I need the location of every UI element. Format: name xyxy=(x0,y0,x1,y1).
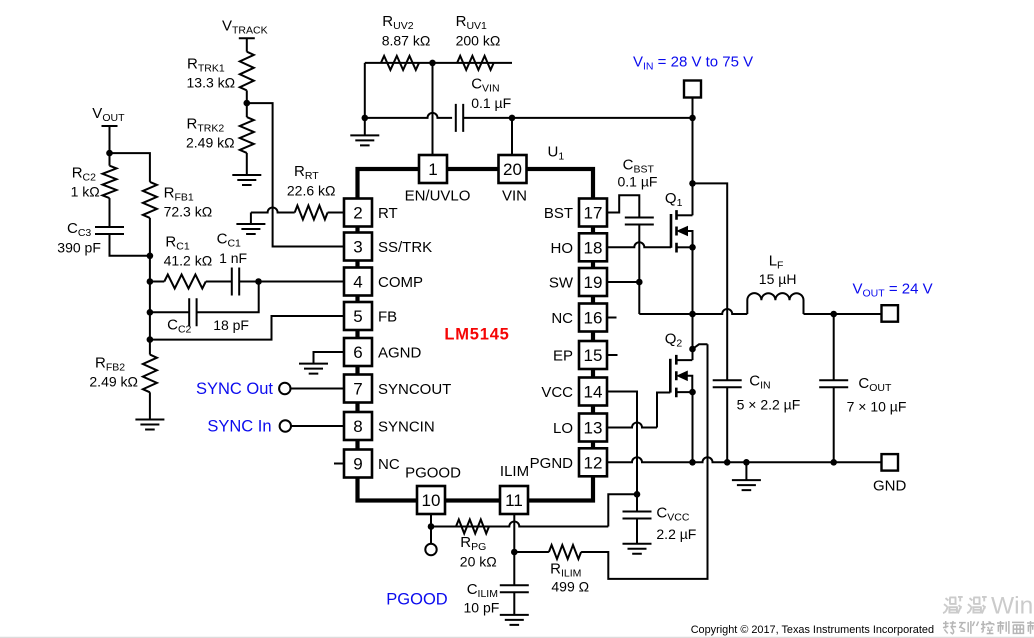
svg-text:LM5145: LM5145 xyxy=(444,326,509,344)
svg-text:10 pF: 10 pF xyxy=(464,600,500,616)
svg-text:2: 2 xyxy=(353,204,362,223)
capacitor COUT xyxy=(819,380,848,387)
node PGND Q2 dot xyxy=(689,459,696,466)
pin 2 box xyxy=(344,199,372,227)
watermark bottom edge line xyxy=(0,636,1034,638)
wire VIN to CIN xyxy=(693,183,728,380)
wire VOUT node to RFB1 top xyxy=(110,153,150,182)
wire SYNCOUT xyxy=(291,388,345,390)
pin 20 box xyxy=(499,155,527,183)
pin 16 box xyxy=(579,304,607,332)
resistor RFB1 xyxy=(143,182,157,218)
svg-text:ILIM: ILIM xyxy=(500,463,529,480)
wire CC3 to FB node xyxy=(110,234,150,256)
svg-text:8.87 kΩ: 8.87 kΩ xyxy=(382,33,431,49)
pin 10 box xyxy=(417,486,445,514)
svg-text:VIN: VIN xyxy=(502,188,527,205)
svg-text:EN/UVLO: EN/UVLO xyxy=(405,188,471,205)
wire FB node vertical xyxy=(149,218,151,355)
resistor RUV2 xyxy=(381,56,419,70)
svg-text:15 µH: 15 µH xyxy=(759,271,797,287)
wire Q2 source to PGND xyxy=(692,392,694,462)
wire SW pin to CBST junction xyxy=(607,281,639,283)
svg-text:SYNC In: SYNC In xyxy=(207,418,271,436)
svg-text:1: 1 xyxy=(428,160,437,179)
wire SW to Q2 drain xyxy=(692,314,694,360)
svg-text:8: 8 xyxy=(353,417,362,436)
pin 8 box xyxy=(344,412,372,440)
wire COUT bottom xyxy=(833,387,835,462)
transistor Q2 body stub xyxy=(687,376,692,392)
node SW CBST dot xyxy=(636,279,643,286)
pin 5 box xyxy=(344,302,372,330)
node VIN pin20 dot xyxy=(509,115,516,122)
pin 1 box xyxy=(419,155,447,183)
wire HO pin to Q1 gate xyxy=(607,242,671,247)
pin 6 box xyxy=(344,338,372,366)
svg-text:2.49 kΩ: 2.49 kΩ xyxy=(89,374,138,390)
pin 18 box xyxy=(579,233,607,261)
wire LO riser xyxy=(657,393,670,428)
svg-text:EP: EP xyxy=(553,348,573,365)
wire COUT top xyxy=(833,314,835,380)
node PGND CIN dot xyxy=(724,459,731,466)
wire RTRK1 to node A xyxy=(246,90,248,117)
wire CC2 row xyxy=(150,311,189,313)
svg-text:2.2 µF: 2.2 µF xyxy=(656,526,696,542)
svg-text:0.1 µF: 0.1 µF xyxy=(471,95,511,111)
capacitor CC1 xyxy=(232,268,239,296)
capacitor CC3 xyxy=(95,227,124,234)
wire RILIM to SW sense xyxy=(581,344,707,579)
node PGND COUT dot xyxy=(830,459,837,466)
transistor Q2 body diode arrow xyxy=(677,371,687,380)
terminal VIN square xyxy=(684,81,701,98)
pin 3 box xyxy=(344,233,372,261)
wire PGND ground stub xyxy=(745,462,747,480)
wire ILIM sense stub xyxy=(693,344,708,349)
node COMP junction dot xyxy=(255,278,262,285)
pin 19 box xyxy=(579,268,607,296)
capacitor CBST xyxy=(625,218,654,225)
node FB wire dot xyxy=(147,336,154,343)
wire VIN terminal down xyxy=(692,89,694,183)
transistor Q1 channel xyxy=(675,210,678,252)
wire UVLO top rail xyxy=(365,62,512,64)
transistor Q2 gate bar xyxy=(669,359,672,393)
svg-text:19: 19 xyxy=(584,273,603,292)
wire VCC pin xyxy=(607,392,637,495)
node RUV2 ground dot xyxy=(362,115,369,122)
svg-text:FB: FB xyxy=(378,309,397,326)
svg-text:SYNCIN: SYNCIN xyxy=(378,419,435,436)
ground at AGND xyxy=(299,364,328,374)
resistor RPG xyxy=(456,520,489,534)
node VOUT rail dot xyxy=(830,311,837,318)
wire CVIN row with hop xyxy=(365,113,452,118)
transistor Q1 gate bar xyxy=(670,214,673,248)
wire RFB2 to ground xyxy=(149,392,151,419)
svg-text:NC: NC xyxy=(378,456,400,473)
resistor RUV1 xyxy=(457,56,494,70)
wire pin15 EP stub xyxy=(607,354,618,356)
wire pin11 down xyxy=(513,514,515,585)
svg-text:PGND: PGND xyxy=(530,455,574,472)
svg-text:13.3 kΩ: 13.3 kΩ xyxy=(187,75,236,91)
wire VTRACK to RTRK1 xyxy=(246,38,248,51)
pin 11 box xyxy=(500,486,528,514)
wire RC1 left xyxy=(150,281,164,283)
wire RT to ground with hop xyxy=(251,208,295,213)
svg-text:10: 10 xyxy=(422,491,441,510)
svg-text:RT: RT xyxy=(378,205,398,222)
node VOUT junction dot xyxy=(106,150,113,157)
node CC3 return dot xyxy=(147,253,154,260)
node SW Q1 dot xyxy=(689,311,696,318)
svg-text:BST: BST xyxy=(544,205,573,222)
svg-text:18 pF: 18 pF xyxy=(213,317,249,333)
wire VOUT terminal down xyxy=(109,126,111,166)
pin 17 box xyxy=(579,199,607,227)
wire RT pin to resistor xyxy=(328,212,344,214)
svg-text:AGND: AGND xyxy=(378,345,422,362)
svg-text:20: 20 xyxy=(503,160,522,179)
transistor Q2 drain stub xyxy=(676,359,692,361)
pin 13 box xyxy=(579,414,607,442)
node PGOOD dot xyxy=(428,523,435,530)
terminal VOUT square xyxy=(882,305,899,322)
ground below RT xyxy=(236,224,265,234)
node CVCC dot xyxy=(634,491,641,498)
wire RUV2 ground stub xyxy=(364,118,366,135)
terminal VTRACK xyxy=(239,37,255,39)
capacitor CIN xyxy=(713,380,742,387)
svg-text:20 kΩ: 20 kΩ xyxy=(460,554,497,570)
svg-text:200 kΩ: 200 kΩ xyxy=(456,33,501,49)
ground at PGND rail xyxy=(732,480,761,490)
svg-text:0.1 µF: 0.1 µF xyxy=(618,174,658,190)
capacitor CVCC xyxy=(623,512,652,519)
node PGND gnd dot xyxy=(743,459,750,466)
svg-text:HO: HO xyxy=(551,240,574,257)
svg-text:SYNCOUT: SYNCOUT xyxy=(378,381,451,398)
wire node A to SS/TRK xyxy=(247,103,344,246)
wire SW rail with hop xyxy=(639,309,747,314)
wire RT ground stub xyxy=(250,213,252,225)
resistor RILIM xyxy=(549,545,581,559)
node RC1 tap dot xyxy=(147,278,154,285)
node CC2 tap dot xyxy=(147,309,154,316)
wire pin16 NC stub xyxy=(607,317,617,319)
pin 7 box xyxy=(344,375,372,403)
wire pin20 vertical xyxy=(511,118,513,155)
wire CVIN to VIN pin xyxy=(463,117,692,119)
node VIN rail dot xyxy=(689,115,696,122)
pin 9 box xyxy=(344,450,372,478)
svg-text:12: 12 xyxy=(584,454,603,473)
ground below RFB2 xyxy=(135,420,164,430)
wire CVCC top xyxy=(636,494,638,511)
svg-text:SW: SW xyxy=(549,275,574,292)
svg-text:13: 13 xyxy=(584,419,603,438)
svg-text:18: 18 xyxy=(584,239,603,258)
svg-text:6: 6 xyxy=(353,343,362,362)
svg-text:41.2 kΩ: 41.2 kΩ xyxy=(164,253,213,269)
capacitor CILIM xyxy=(500,585,529,592)
svg-text:5 × 2.2 µF: 5 × 2.2 µF xyxy=(737,397,801,413)
svg-text:1 kΩ: 1 kΩ xyxy=(71,184,100,200)
svg-text:390 pF: 390 pF xyxy=(57,240,101,256)
wire RC1 to CC1 xyxy=(206,281,232,283)
svg-text:3: 3 xyxy=(353,238,362,257)
svg-text:1 nF: 1 nF xyxy=(219,250,247,266)
transistor Q2 channel xyxy=(675,355,678,397)
wire RPG to VCC node xyxy=(608,494,637,526)
transistor Q1 drain stub xyxy=(677,214,693,216)
svg-text:9: 9 xyxy=(353,455,362,474)
resistor RTRK1 xyxy=(240,52,254,91)
resistor RRT xyxy=(295,206,328,220)
wire pin10 down xyxy=(430,514,432,544)
node Q1 source dot xyxy=(689,244,696,251)
wire RTRK2 to ground xyxy=(246,153,248,175)
svg-text:7: 7 xyxy=(353,380,362,399)
node UVLO divider dot xyxy=(429,60,436,67)
resistor RTRK2 xyxy=(240,117,254,153)
wire CIN to PGND xyxy=(726,387,728,462)
svg-text:4: 4 xyxy=(353,273,362,292)
svg-text:SS/TRK: SS/TRK xyxy=(378,239,432,256)
svg-text:22.6 kΩ: 22.6 kΩ xyxy=(287,183,336,199)
ic U1 outline xyxy=(358,169,594,501)
watermark line2 chinese xyxy=(943,621,1034,634)
wire RC2 to CC3 xyxy=(109,198,111,228)
wire RUV2 left leg xyxy=(364,63,366,118)
wire CC2 to COMP node xyxy=(197,282,259,313)
ground below CILIM xyxy=(500,615,529,625)
wire BST pin to CBST xyxy=(607,195,639,218)
pin 15 box xyxy=(579,341,607,369)
svg-text:COMP: COMP xyxy=(378,274,423,291)
ground below RTRK2 xyxy=(232,175,261,185)
svg-text:LO: LO xyxy=(553,420,573,437)
wire CBST to SW node xyxy=(638,225,640,283)
svg-text:7 × 10 µF: 7 × 10 µF xyxy=(847,399,907,415)
svg-text:GND: GND xyxy=(873,478,907,495)
wire PGND rail with hops xyxy=(607,457,882,462)
ground below CVCC xyxy=(623,544,652,554)
svg-text:PGOOD: PGOOD xyxy=(405,465,461,482)
terminal SYNC In circle xyxy=(280,420,291,431)
node ILIM dot xyxy=(511,549,518,556)
node A junction dot xyxy=(244,100,251,107)
node Q2 drain dot xyxy=(689,346,696,353)
node Q2 source dot xyxy=(689,389,696,396)
svg-text:16: 16 xyxy=(584,309,603,328)
svg-text:5: 5 xyxy=(353,307,362,326)
svg-text:17: 17 xyxy=(584,204,603,223)
wire CC1 to COMP pin xyxy=(239,281,344,283)
capacitor CC2 xyxy=(189,298,196,326)
transistor Q1 body stub xyxy=(688,231,693,247)
pin 12 box xyxy=(579,448,607,476)
svg-text:NC: NC xyxy=(551,310,573,327)
terminal VOUT left xyxy=(102,125,118,127)
wire RPG row with hop xyxy=(431,522,608,527)
pin 14 box xyxy=(579,378,607,406)
watermark line1 activate windows xyxy=(943,596,987,613)
ground below RUV2 xyxy=(350,135,379,145)
terminal PGOOD circle xyxy=(425,544,436,555)
node Q1 drain dot xyxy=(689,180,696,187)
pin 4 box xyxy=(344,268,372,296)
terminal GND square xyxy=(882,454,899,471)
wire FB pin path xyxy=(150,316,344,340)
svg-text:SYNC Out: SYNC Out xyxy=(196,380,273,398)
terminal SYNC Out circle xyxy=(279,383,290,394)
wire SW down xyxy=(638,282,640,314)
svg-text:Copyright © 2017, Texas Instru: Copyright © 2017, Texas Instruments Inco… xyxy=(691,624,934,636)
svg-text:499 Ω: 499 Ω xyxy=(551,579,589,595)
wire LO pin to Q2 gate xyxy=(607,423,657,428)
svg-text:14: 14 xyxy=(584,383,603,402)
inductor LF xyxy=(747,293,803,314)
svg-text:72.3 kΩ: 72.3 kΩ xyxy=(164,204,213,220)
svg-text:PGOOD: PGOOD xyxy=(386,591,448,609)
svg-text:Win: Win xyxy=(991,593,1033,620)
wire CILIM to ground xyxy=(513,592,515,615)
svg-text:2.49 kΩ: 2.49 kΩ xyxy=(186,135,235,151)
resistor RC1 xyxy=(164,275,206,289)
capacitor CVIN xyxy=(456,104,463,132)
wire Q1 drain up xyxy=(692,183,694,215)
svg-text:15: 15 xyxy=(584,346,603,365)
wire SYNCIN xyxy=(291,425,344,427)
svg-text:VCC: VCC xyxy=(541,384,573,401)
resistor RFB2 xyxy=(143,355,157,393)
wire Q1 source to SW xyxy=(692,247,694,314)
transistor Q2 source stub xyxy=(676,391,692,393)
wire pin9 NC stub xyxy=(334,463,344,465)
wire CVCC to ground xyxy=(636,519,638,544)
svg-text:11: 11 xyxy=(505,491,523,510)
wire ILIM row xyxy=(514,551,549,553)
transistor Q1 body diode arrow xyxy=(678,227,688,236)
wire LF to VOUT terminal xyxy=(804,313,882,315)
wire EN/UVLO pin1 vertical xyxy=(432,63,434,155)
transistor Q1 source stub xyxy=(677,246,693,248)
wire AGND pin xyxy=(314,352,345,364)
resistor RC2 xyxy=(103,166,117,198)
